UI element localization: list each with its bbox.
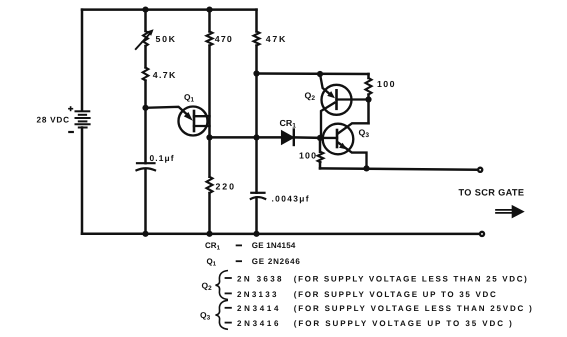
node: Q3 base / Q2 collector / 100 <box>317 135 323 141</box>
legend line: CR1 = GE 1N4154 <box>205 241 296 251</box>
wire: 50K to 4.7K segment <box>144 46 147 68</box>
wire: 470 to Q1 base column <box>208 46 211 177</box>
Q2 collector lead <box>321 103 335 138</box>
wire: left battery branch lower <box>81 128 84 234</box>
svg-text:100: 100 <box>299 151 316 161</box>
wire: Q3 base node down to 100 ohm lower <box>319 138 322 152</box>
resistor 220 <box>207 177 213 193</box>
junction: top rail / 470 <box>206 7 212 13</box>
wire: 0043 cap to bottom rail <box>255 198 258 234</box>
junction: Q3 emitter / output run <box>363 165 369 171</box>
svg-text:0.1μf: 0.1μf <box>150 153 174 163</box>
legend line: Q3 = 2N3414 <box>225 304 533 313</box>
svg-text:GE 2N2646: GE 2N2646 <box>252 257 301 266</box>
svg-text:47K: 47K <box>266 34 286 44</box>
transistor Q3 npn <box>320 123 369 168</box>
legend line: Q2 = 2N3133 <box>225 290 496 299</box>
Q3 collector lead <box>338 123 369 133</box>
wire: 47K node to Q2 emitter run <box>257 72 369 75</box>
wire: Q2 base node down to Q3 collector corner <box>367 100 370 124</box>
wire: bottom ground rail <box>82 233 479 236</box>
capacitor 0.1uf <box>137 163 156 170</box>
battery 28 VDC <box>76 111 90 127</box>
svg-text:470: 470 <box>215 34 232 44</box>
battery minus mark <box>69 131 73 133</box>
diode CR1 <box>282 131 294 144</box>
wire: output run to SCR gate terminal <box>320 168 477 169</box>
terminal: SCR gate output (open circle) <box>478 168 482 172</box>
resistor 470 <box>207 32 213 46</box>
Q3 emitter lead with arrow <box>338 143 367 169</box>
svg-text:100: 100 <box>377 79 395 89</box>
wire: 100 ohm lower to output corner <box>319 162 322 168</box>
node: Q1 base1 output <box>206 134 212 140</box>
resistor 100 upper <box>366 78 372 95</box>
svg-text:(FOR SUPPLY VOLTAGE LESS THAN: (FOR SUPPLY VOLTAGE LESS THAN 25VDC ) <box>294 304 532 313</box>
resistor 47K <box>254 32 260 46</box>
wire: node to 0.1uf cap <box>144 108 147 163</box>
legend line: Q2 = 2N3638 <box>225 274 528 283</box>
svg-text:.0043μf: .0043μf <box>272 193 309 203</box>
Q1 emitter lead with arrow <box>146 107 187 114</box>
node: Q2 emitter <box>317 71 323 77</box>
resistor 4.7K <box>143 68 149 81</box>
junction: bottom rail / 0.1uf <box>142 231 148 237</box>
wire: 100 ohm upper drop <box>367 74 370 78</box>
svg-text:TO SCR GATE: TO SCR GATE <box>459 187 525 197</box>
svg-text:GE 1N4154: GE 1N4154 <box>252 241 296 250</box>
legend line: Q3 = 2N3416 <box>225 319 513 328</box>
wire: 4.7K to emitter node <box>144 81 147 108</box>
wire: 47K branch top <box>255 10 258 32</box>
svg-text:28 VDC: 28 VDC <box>37 116 70 125</box>
legend group Q2 brace <box>202 271 229 300</box>
wire: 47K down to 0043 cap <box>255 46 258 193</box>
transistor Q1 unijunction <box>146 107 210 136</box>
node: Q1 emitter / 4.7K / 0.1uf <box>142 105 148 111</box>
wire: 0.1uf cap to bottom rail <box>144 169 147 234</box>
svg-text:220: 220 <box>216 182 235 192</box>
wire: top supply rail <box>82 8 257 11</box>
wire: 50K branch top <box>144 10 147 31</box>
terminal: bottom rail end (open circle) <box>480 232 484 236</box>
Q2 emitter lead with arrow <box>320 74 330 94</box>
junction: 47K column / diode wire <box>253 134 259 140</box>
potentiometer 50K <box>143 31 148 46</box>
wire: 100 ohm to Q2 base node <box>367 95 370 100</box>
junction: top rail / 50K <box>142 7 148 13</box>
resistor 100 lower <box>318 152 324 162</box>
arrow: to SCR gate <box>496 205 525 219</box>
wire: diode to Q3 base node <box>294 136 320 139</box>
junction: 47K / Q2 emitter run <box>253 70 259 76</box>
wire: left battery branch upper <box>81 10 84 111</box>
wire: 470 branch top <box>208 10 211 32</box>
battery plus mark <box>69 107 73 110</box>
capacitor .0043uf <box>251 193 265 199</box>
svg-text:50K: 50K <box>156 34 176 44</box>
transistor Q2 pnp <box>320 74 369 138</box>
node: Q2 base / 100 / Q3 collector <box>365 96 371 102</box>
junction: bottom rail / 220 <box>206 231 212 237</box>
wire: 220 to bottom rail <box>208 193 211 234</box>
wire: Q1 base1 node to diode <box>210 136 283 139</box>
svg-text:(FOR SUPPLY VOLTAGE UP TO 35 V: (FOR SUPPLY VOLTAGE UP TO 35 VDC ) <box>294 319 512 328</box>
legend group Q3 brace <box>200 300 228 329</box>
svg-text:4.7K: 4.7K <box>153 70 176 80</box>
junction: bottom rail / 0043 cap <box>253 231 259 237</box>
svg-text:(FOR SUPPLY VOLTAGE LESS THAN: (FOR SUPPLY VOLTAGE LESS THAN 25 VDC) <box>294 274 527 283</box>
potentiometer 50K wiper arrow <box>136 33 151 49</box>
legend line: Q1 = GE 2N2646 <box>207 257 301 267</box>
